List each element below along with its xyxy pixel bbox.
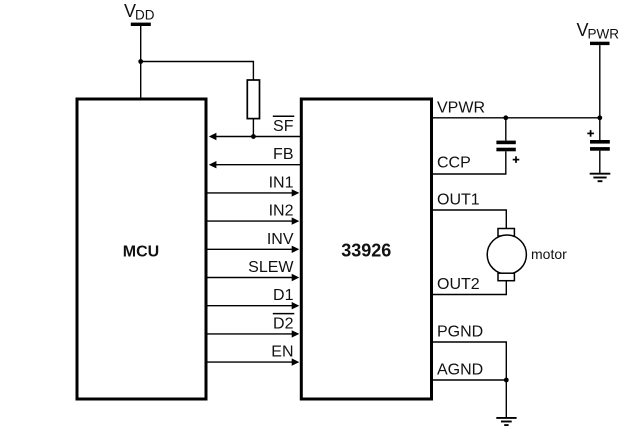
svg-text:SF: SF: [273, 118, 294, 135]
wire EN: [207, 361, 294, 363]
wire AGND: [432, 379, 507, 381]
arrowhead SLEW right: [292, 274, 300, 281]
svg-text:PWR: PWR: [588, 27, 620, 42]
wire D1: [207, 305, 294, 307]
wire VDD vertical: [140, 26, 142, 98]
ground symbol bottom: [496, 418, 516, 425]
svg-text:IN1: IN1: [269, 174, 294, 191]
node VPWR-C2 junction: [597, 115, 602, 120]
svg-text:OUT1: OUT1: [437, 192, 480, 209]
label SF with overbar: [273, 116, 295, 135]
wire C1 to CCP: [505, 151, 507, 174]
wire PGND: [432, 342, 507, 380]
arrowhead INV right: [292, 246, 300, 253]
node VDD junction: [138, 59, 143, 64]
arrowhead D1 right: [292, 302, 300, 309]
svg-text:IN2: IN2: [269, 203, 294, 220]
svg-text:D1: D1: [273, 287, 294, 304]
svg-text:D2: D2: [273, 315, 294, 332]
wire VDD to resistor: [141, 62, 254, 81]
IC U1 33926: [301, 99, 431, 399]
arrowhead D2 right: [292, 330, 300, 337]
arrowhead IN2 right: [292, 217, 300, 224]
wire D2: [207, 333, 294, 335]
label D2 with overbar: [273, 314, 295, 333]
svg-text:DD: DD: [135, 8, 155, 23]
svg-text:CCP: CCP: [437, 155, 471, 172]
svg-text:VPWR: VPWR: [437, 99, 485, 116]
wire IN2: [207, 220, 294, 222]
wire VPWR to C1: [505, 118, 507, 141]
wire resistor to SF: [252, 119, 254, 137]
svg-text:SLEW: SLEW: [248, 259, 294, 276]
arrowhead IN1 right: [292, 189, 300, 196]
svg-text:OUT2: OUT2: [437, 276, 480, 293]
svg-text:33926: 33926: [341, 241, 391, 261]
wire VPWR to C2: [599, 118, 601, 140]
wire VPWR vertical drop: [599, 45, 601, 118]
capacitor C2 bulk: [587, 130, 610, 151]
svg-text:MCU: MCU: [123, 244, 159, 261]
ground symbol right: [590, 174, 611, 182]
wire VPWR rail: [432, 117, 600, 119]
wire FB: [215, 164, 300, 166]
wire IN1: [207, 192, 294, 194]
wire C2 to ground: [599, 151, 601, 173]
arrowhead SF left: [209, 133, 217, 140]
MCU block: [77, 99, 206, 399]
motor M1: [487, 229, 567, 281]
arrowhead FB left: [209, 161, 217, 168]
node SF junction: [251, 134, 256, 139]
svg-text:PGND: PGND: [437, 324, 483, 341]
svg-text:INV: INV: [267, 231, 294, 248]
svg-text:FB: FB: [273, 146, 293, 163]
svg-text:motor: motor: [531, 246, 567, 262]
node AGND junction: [504, 378, 509, 383]
wire SLEW: [207, 277, 294, 279]
wire OUT1: [432, 210, 507, 229]
wire CCP: [432, 173, 507, 175]
resistor R1: [247, 80, 259, 119]
wire AGND to ground: [505, 380, 507, 418]
wire OUT2: [432, 281, 507, 295]
wire INV: [207, 248, 294, 250]
node VPWR-C1 junction: [503, 115, 508, 120]
power symbol VPWR: [577, 20, 620, 45]
power symbol VDD: [124, 1, 155, 26]
svg-text:AGND: AGND: [437, 361, 483, 378]
capacitor C1 CCP: [496, 141, 519, 163]
wire SF: [215, 136, 300, 138]
svg-text:EN: EN: [271, 344, 293, 361]
arrowhead EN right: [292, 358, 300, 365]
